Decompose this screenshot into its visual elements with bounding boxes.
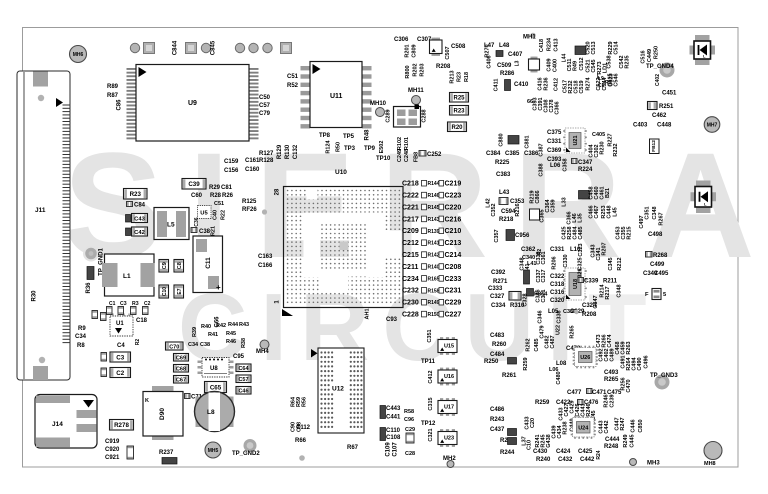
svg-text:R142: R142 bbox=[428, 253, 440, 259]
svg-text:C483: C483 bbox=[490, 333, 505, 339]
svg-text:R212: R212 bbox=[617, 257, 623, 270]
svg-text:R66: R66 bbox=[295, 438, 307, 444]
svg-text:TP11: TP11 bbox=[421, 359, 436, 365]
svg-text:R40: R40 bbox=[201, 324, 211, 330]
svg-text:C844: C844 bbox=[173, 40, 179, 55]
svg-text:MH5: MH5 bbox=[208, 448, 219, 454]
IC U6 4-pad package bbox=[394, 105, 421, 128]
resistor R254 bbox=[450, 93, 469, 103]
svg-text:R129: R129 bbox=[277, 144, 283, 159]
svg-text:R9: R9 bbox=[78, 326, 86, 332]
svg-text:C443: C443 bbox=[386, 406, 401, 412]
dark component C381 bbox=[524, 270, 530, 284]
svg-text:C339: C339 bbox=[584, 279, 599, 285]
svg-text:R48: R48 bbox=[365, 129, 371, 141]
test point TP_GND2 bbox=[232, 439, 260, 457]
svg-text:R89: R89 bbox=[107, 84, 119, 90]
svg-text:C850: C850 bbox=[638, 419, 644, 432]
svg-text:C359: C359 bbox=[551, 199, 557, 212]
svg-text:C29: C29 bbox=[405, 427, 415, 433]
svg-text:C229: C229 bbox=[445, 300, 462, 307]
svg-text:R23: R23 bbox=[453, 109, 465, 115]
svg-text:C60: C60 bbox=[191, 193, 203, 199]
transistor U15 bbox=[438, 337, 457, 355]
svg-text:U1: U1 bbox=[116, 321, 124, 327]
svg-text:C306: C306 bbox=[394, 37, 409, 43]
svg-text:C351: C351 bbox=[427, 329, 433, 342]
svg-text:C108: C108 bbox=[386, 435, 401, 441]
svg-text:L45: L45 bbox=[613, 207, 619, 216]
BGA U10 center pad bbox=[340, 242, 349, 251]
svg-text:C163: C163 bbox=[258, 254, 273, 260]
svg-text:C383: C383 bbox=[496, 172, 511, 178]
svg-text:R44: R44 bbox=[228, 322, 239, 328]
capacitor C46 bbox=[236, 387, 251, 395]
svg-text:C323: C323 bbox=[578, 243, 584, 256]
svg-text:R260: R260 bbox=[492, 342, 507, 348]
svg-text:C412: C412 bbox=[554, 78, 560, 91]
svg-text:C321: C321 bbox=[428, 428, 434, 441]
svg-text:C474: C474 bbox=[607, 333, 613, 347]
BGA U10 depopulated regions bbox=[304, 189, 402, 291]
svg-text:R244: R244 bbox=[500, 450, 515, 456]
svg-text:AH1: AH1 bbox=[365, 308, 371, 319]
svg-text:MH6: MH6 bbox=[73, 52, 84, 58]
IC U11 body bbox=[310, 62, 362, 128]
svg-text:C392: C392 bbox=[491, 270, 506, 276]
mounting hole MH3 bbox=[630, 459, 661, 467]
inductor L1 bbox=[102, 254, 155, 296]
svg-text:U23: U23 bbox=[444, 436, 454, 442]
svg-text:R58: R58 bbox=[404, 409, 414, 415]
capacitor C11 body bbox=[193, 236, 223, 293]
svg-text:R250: R250 bbox=[654, 46, 660, 59]
via near R208 bbox=[574, 310, 578, 314]
via below U12 bbox=[299, 455, 305, 461]
svg-text:C405: C405 bbox=[592, 132, 605, 138]
svg-text:R236: R236 bbox=[544, 77, 550, 90]
connector J11 bbox=[17, 71, 70, 380]
test point TP_GND4 bbox=[646, 63, 675, 78]
svg-text:R211: R211 bbox=[603, 279, 618, 285]
svg-text:U24: U24 bbox=[578, 425, 589, 431]
svg-text:C449: C449 bbox=[647, 49, 653, 62]
svg-text:C448: C448 bbox=[657, 123, 672, 129]
svg-text:C316: C316 bbox=[550, 290, 565, 296]
resistor R233 bbox=[450, 106, 469, 116]
svg-text:C214: C214 bbox=[445, 252, 462, 259]
via circle 5 bbox=[263, 43, 272, 52]
svg-text:C223: C223 bbox=[445, 193, 462, 200]
svg-text:L1: L1 bbox=[123, 273, 131, 280]
svg-text:U21: U21 bbox=[573, 135, 579, 145]
svg-text:R202: R202 bbox=[413, 63, 419, 76]
capacitor C353 glyph bbox=[499, 198, 508, 205]
svg-text:C8: C8 bbox=[177, 262, 183, 269]
svg-text:U15: U15 bbox=[444, 344, 454, 350]
svg-text:R144: R144 bbox=[428, 181, 440, 187]
svg-text:R143: R143 bbox=[428, 217, 440, 223]
svg-text:R259: R259 bbox=[523, 357, 529, 370]
svg-text:C418: C418 bbox=[539, 39, 545, 52]
capacitor cluster dark box b bbox=[380, 428, 386, 441]
svg-text:R250: R250 bbox=[484, 359, 499, 365]
svg-text:C39: C39 bbox=[188, 181, 200, 188]
svg-text:C96: C96 bbox=[404, 417, 414, 423]
connector J11 pin comb bbox=[63, 105, 71, 343]
capacitor C7 bbox=[174, 285, 184, 298]
capacitor C84 label bbox=[127, 202, 133, 207]
capacitor C70 bbox=[166, 342, 184, 350]
svg-text:R149: R149 bbox=[428, 300, 440, 306]
IC U2 bbox=[529, 57, 540, 73]
svg-text:C336: C336 bbox=[557, 310, 563, 323]
svg-text:L33: L33 bbox=[562, 197, 568, 206]
IC U9 pins right bbox=[249, 68, 259, 139]
ferrite FB14 bbox=[527, 289, 534, 297]
capacitor C39 bbox=[182, 179, 206, 190]
decoupling row C221 R145 C220 bbox=[402, 204, 461, 211]
svg-text:R18: R18 bbox=[464, 72, 470, 82]
svg-text:C81: C81 bbox=[221, 185, 233, 191]
capacitor C68 bbox=[174, 365, 189, 373]
svg-text:C230: C230 bbox=[402, 300, 419, 307]
svg-text:C318: C318 bbox=[550, 282, 565, 288]
decoupling row C232 R158 C231 bbox=[402, 288, 461, 295]
capacitor C8 bbox=[174, 260, 184, 273]
svg-text:R43: R43 bbox=[239, 322, 249, 328]
svg-text:C210: C210 bbox=[445, 228, 462, 235]
svg-text:C509: C509 bbox=[497, 63, 512, 69]
resistor R23 bbox=[124, 189, 148, 200]
svg-text:C20: C20 bbox=[530, 418, 536, 428]
svg-text:C232: C232 bbox=[402, 288, 419, 295]
IC U9 pins left bbox=[127, 68, 137, 139]
svg-text:R52: R52 bbox=[287, 83, 299, 89]
svg-text:C366: C366 bbox=[555, 101, 561, 114]
svg-text:C499: C499 bbox=[650, 262, 665, 268]
svg-text:LD1: LD1 bbox=[603, 63, 609, 73]
LED D1 bbox=[690, 35, 716, 65]
resistor R13 bbox=[509, 292, 521, 301]
svg-text:C410: C410 bbox=[514, 82, 529, 88]
ferrite FB10 bbox=[506, 230, 515, 241]
svg-text:C18: C18 bbox=[136, 318, 148, 324]
svg-text:C10: C10 bbox=[527, 440, 533, 450]
mounting hole MH8 bbox=[704, 442, 722, 460]
svg-text:C67: C67 bbox=[176, 378, 186, 384]
svg-text:R248: R248 bbox=[604, 444, 619, 450]
svg-text:C357: C357 bbox=[494, 229, 500, 242]
svg-text:U5: U5 bbox=[200, 211, 208, 217]
capacitor C65 bbox=[205, 382, 227, 393]
via square 2 bbox=[186, 43, 197, 54]
svg-text:E7: E7 bbox=[177, 288, 183, 294]
svg-text:R208: R208 bbox=[582, 312, 597, 318]
svg-text:C324: C324 bbox=[582, 303, 597, 309]
ferrite FB13 bbox=[575, 46, 586, 55]
svg-text:C375: C375 bbox=[547, 130, 562, 136]
svg-text:R42: R42 bbox=[216, 323, 226, 329]
svg-text:C358: C358 bbox=[563, 158, 569, 171]
svg-text:C328: C328 bbox=[523, 293, 529, 306]
svg-text:C881: C881 bbox=[525, 135, 531, 148]
tiny box near C2 bbox=[101, 368, 107, 377]
svg-text:R278: R278 bbox=[114, 422, 129, 429]
decoupling row C222 R146 C223 bbox=[402, 192, 461, 199]
svg-text:C445: C445 bbox=[630, 434, 636, 447]
decoupling row C228 R150 C227 bbox=[402, 311, 461, 318]
svg-text:C320: C320 bbox=[550, 298, 565, 304]
capacitor C339 label bbox=[578, 278, 584, 283]
svg-text:R23: R23 bbox=[457, 72, 463, 82]
svg-text:R30: R30 bbox=[32, 290, 38, 302]
svg-text:MH4: MH4 bbox=[256, 349, 269, 355]
capacitor C42 bbox=[132, 227, 148, 236]
svg-text:C513: C513 bbox=[591, 41, 597, 54]
svg-text:C234: C234 bbox=[402, 276, 419, 283]
IC U18 bbox=[563, 268, 587, 300]
svg-text:C95: C95 bbox=[233, 354, 245, 360]
via square 1 bbox=[144, 43, 155, 54]
svg-text:U12: U12 bbox=[332, 386, 344, 393]
svg-text:C490: C490 bbox=[637, 357, 643, 370]
svg-text:R124: R124 bbox=[326, 139, 332, 153]
svg-text:C413: C413 bbox=[554, 38, 560, 51]
capacitor C10 bbox=[159, 285, 169, 298]
svg-text:C385: C385 bbox=[505, 151, 520, 157]
svg-text:C462: C462 bbox=[652, 113, 667, 119]
via near R125 bbox=[262, 209, 267, 214]
svg-text:R249: R249 bbox=[623, 434, 629, 447]
inductor L5 bbox=[154, 208, 189, 240]
svg-text:C112: C112 bbox=[296, 425, 311, 431]
svg-text:R235: R235 bbox=[625, 55, 631, 68]
svg-text:C51: C51 bbox=[214, 201, 224, 207]
svg-text:TP10: TP10 bbox=[376, 156, 391, 162]
svg-text:D90: D90 bbox=[159, 408, 166, 420]
IC U12 body bbox=[318, 348, 364, 433]
svg-text:28: 28 bbox=[275, 188, 281, 195]
svg-text:U26: U26 bbox=[580, 355, 590, 361]
svg-text:R165: R165 bbox=[428, 276, 440, 282]
IC U12 label bbox=[330, 383, 347, 393]
svg-text:C3: C3 bbox=[116, 354, 124, 361]
svg-text:R28: R28 bbox=[210, 193, 222, 199]
svg-text:R46: R46 bbox=[226, 339, 236, 345]
svg-text:RF26: RF26 bbox=[242, 207, 257, 213]
svg-text:C211: C211 bbox=[402, 264, 418, 271]
svg-text:L47: L47 bbox=[484, 43, 495, 49]
svg-text:C109: C109 bbox=[386, 442, 392, 457]
svg-text:R215: R215 bbox=[627, 226, 633, 239]
svg-text:C412: C412 bbox=[428, 370, 434, 383]
svg-text:MH10: MH10 bbox=[370, 101, 387, 107]
via circle 2 bbox=[201, 43, 210, 52]
transistor U23 bbox=[438, 429, 457, 447]
svg-text:R230: R230 bbox=[600, 141, 606, 154]
svg-text:C432: C432 bbox=[558, 457, 573, 463]
svg-text:C209: C209 bbox=[402, 228, 419, 235]
svg-text:C508: C508 bbox=[451, 44, 466, 50]
svg-text:C921: C921 bbox=[105, 455, 120, 461]
diode D90 bbox=[143, 386, 183, 440]
test point TP_GND3 bbox=[650, 373, 678, 390]
svg-text:C444: C444 bbox=[605, 437, 620, 443]
IC N2 box bbox=[530, 209, 540, 220]
svg-text:R201: R201 bbox=[405, 44, 411, 57]
svg-text:R259: R259 bbox=[535, 400, 550, 406]
svg-text:C220: C220 bbox=[445, 204, 462, 211]
svg-text:R130: R130 bbox=[285, 144, 291, 159]
svg-text:C51: C51 bbox=[287, 74, 299, 80]
svg-text:R45: R45 bbox=[226, 331, 236, 337]
svg-text:C42: C42 bbox=[134, 230, 145, 236]
svg-text:C38: C38 bbox=[200, 342, 210, 348]
svg-text:R267: R267 bbox=[659, 212, 665, 225]
svg-text:C249: C249 bbox=[397, 149, 403, 162]
svg-text:C441: C441 bbox=[386, 415, 401, 421]
svg-text:C484: C484 bbox=[490, 352, 505, 358]
svg-text:C208: C208 bbox=[445, 264, 462, 271]
svg-text:R217: R217 bbox=[605, 286, 611, 299]
svg-text:U11: U11 bbox=[330, 93, 343, 100]
IC U11 pins right bbox=[362, 66, 372, 129]
svg-text:R263: R263 bbox=[626, 341, 632, 354]
tiny box left a bbox=[92, 311, 98, 319]
svg-text:C496: C496 bbox=[644, 355, 650, 368]
tiny box near C3 bbox=[101, 353, 107, 362]
svg-text:C387: C387 bbox=[539, 143, 545, 156]
svg-text:TP3: TP3 bbox=[344, 146, 356, 152]
svg-text:C132: C132 bbox=[293, 144, 299, 159]
via C844 row circle 1 bbox=[130, 43, 139, 52]
svg-text:C480: C480 bbox=[556, 371, 562, 384]
svg-text:R128: R128 bbox=[259, 158, 274, 164]
IC U11 pins left bbox=[301, 66, 311, 129]
dark cap left of C43 bbox=[126, 215, 131, 223]
svg-text:C43: C43 bbox=[134, 216, 145, 222]
svg-text:R36: R36 bbox=[86, 282, 92, 294]
test point TP_GND1 bbox=[83, 246, 99, 262]
svg-text:MH7: MH7 bbox=[707, 122, 718, 128]
svg-text:C347: C347 bbox=[578, 160, 593, 166]
svg-text:R213: R213 bbox=[450, 70, 456, 83]
svg-text:C498: C498 bbox=[648, 232, 663, 238]
tiny box row 4 bbox=[143, 307, 149, 315]
svg-text:C361: C361 bbox=[541, 251, 547, 264]
svg-text:U22: U22 bbox=[556, 325, 562, 335]
svg-text:C213: C213 bbox=[445, 240, 462, 247]
svg-text:L8: L8 bbox=[207, 409, 215, 416]
svg-text:R224: R224 bbox=[578, 167, 593, 173]
svg-text:R56: R56 bbox=[302, 397, 308, 407]
ferrite FB11a bbox=[508, 358, 517, 365]
mounting hole MH1 bbox=[523, 33, 536, 41]
BGA U10 ball grid bbox=[287, 190, 400, 303]
svg-text:TP5: TP5 bbox=[343, 134, 355, 140]
svg-text:R218: R218 bbox=[499, 217, 514, 223]
svg-text:R102: R102 bbox=[397, 137, 403, 150]
mounting hole MH5 bbox=[205, 442, 221, 458]
svg-text:C159: C159 bbox=[224, 159, 239, 165]
capacitor C410 glyph bbox=[505, 80, 511, 91]
svg-text:L3: L3 bbox=[515, 60, 521, 66]
svg-text:MH1: MH1 bbox=[523, 35, 536, 41]
svg-text:R261: R261 bbox=[502, 373, 517, 379]
svg-text:C166: C166 bbox=[258, 263, 273, 269]
svg-text:C239: C239 bbox=[610, 394, 616, 407]
svg-text:C161: C161 bbox=[245, 158, 260, 164]
capacitor C43 bbox=[132, 214, 148, 223]
svg-text:C400: C400 bbox=[553, 59, 559, 72]
capacitor next to C920 bbox=[127, 446, 134, 459]
svg-text:C252: C252 bbox=[427, 152, 442, 158]
svg-text:R20: R20 bbox=[451, 125, 463, 131]
svg-text:C231: C231 bbox=[445, 288, 462, 295]
svg-text:C451: C451 bbox=[662, 91, 677, 97]
capacitor C252 bbox=[419, 151, 426, 157]
svg-text:C507: C507 bbox=[445, 46, 451, 59]
ferrite FB7 bbox=[579, 191, 590, 200]
mounting hole MH10 bbox=[370, 101, 387, 117]
svg-text:C315: C315 bbox=[428, 397, 434, 410]
svg-text:C512: C512 bbox=[579, 57, 585, 70]
svg-text:R87: R87 bbox=[107, 93, 119, 99]
mounting hole MH6 bbox=[70, 46, 87, 63]
svg-text:C221: C221 bbox=[402, 204, 419, 211]
svg-text:C433: C433 bbox=[559, 407, 565, 420]
svg-text:C46: C46 bbox=[238, 389, 248, 395]
svg-text:R240: R240 bbox=[536, 457, 551, 463]
svg-text:C327: C327 bbox=[490, 294, 505, 300]
BGA U10 body bbox=[284, 187, 404, 308]
svg-text:C40: C40 bbox=[213, 210, 219, 220]
svg-text:C446: C446 bbox=[631, 419, 637, 432]
svg-text:C866: C866 bbox=[535, 190, 541, 203]
svg-text:C345: C345 bbox=[608, 257, 614, 270]
svg-text:C467: C467 bbox=[594, 205, 600, 218]
IC U26 bbox=[573, 346, 598, 369]
svg-text:R24: R24 bbox=[596, 450, 602, 459]
svg-text:R101: R101 bbox=[404, 137, 410, 150]
svg-text:C216: C216 bbox=[445, 216, 462, 223]
decoupling row C230 R149 C229 bbox=[402, 299, 461, 306]
svg-text:R145: R145 bbox=[428, 205, 440, 211]
capacitor C3b bbox=[110, 352, 131, 362]
decoupling row C217 R143 C216 bbox=[402, 216, 461, 223]
mounting hole MH11 bbox=[408, 88, 424, 105]
svg-text:U17: U17 bbox=[444, 405, 454, 411]
svg-text:C495: C495 bbox=[654, 271, 669, 277]
dark cap left of C42 bbox=[126, 228, 131, 236]
svg-text:U16: U16 bbox=[444, 374, 454, 380]
mounting hole MH4 bbox=[256, 340, 269, 355]
svg-text:C2: C2 bbox=[116, 370, 124, 377]
ferrite FB6 bbox=[508, 136, 519, 145]
svg-text:C544: C544 bbox=[602, 76, 608, 90]
svg-text:J14: J14 bbox=[52, 421, 63, 428]
svg-text:C248: C248 bbox=[404, 149, 410, 162]
svg-text:J11: J11 bbox=[35, 207, 46, 214]
svg-text:C348: C348 bbox=[617, 284, 623, 297]
svg-text:R38: R38 bbox=[241, 338, 247, 348]
capacitor C2b bbox=[110, 368, 131, 378]
svg-text:C79: C79 bbox=[259, 111, 271, 117]
svg-text:C289: C289 bbox=[386, 109, 392, 122]
tiny box left b bbox=[101, 313, 107, 321]
svg-text:C330: C330 bbox=[563, 254, 569, 267]
